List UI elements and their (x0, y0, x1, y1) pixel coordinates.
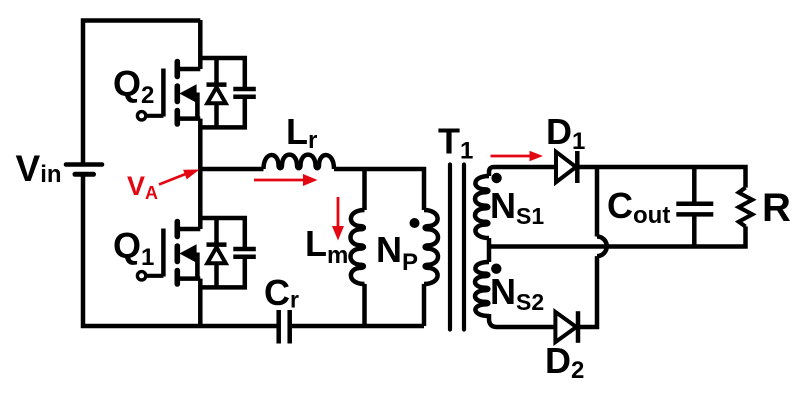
red current arrow down into Lm (337, 197, 340, 226)
wire riser from crossover down to D2 (578, 256, 597, 327)
polarity dot NP (410, 218, 420, 228)
transistor Q1 channel bars (175, 222, 181, 285)
wire center tap vertical (NS1 bottom to NS2 top) (487, 238, 492, 262)
transistor Q1 gate lead (146, 274, 163, 278)
diode D1 triangle (556, 152, 576, 182)
diode Q2 body-diode cathode bar (207, 82, 227, 87)
wire Q1 snubber top (200, 218, 245, 249)
battery Vin short plate (75, 172, 94, 177)
wire Lm branch upper (362, 169, 367, 210)
svg-text:D2: D2 (545, 340, 584, 384)
svg-text:Cout: Cout (607, 185, 670, 229)
battery Vin long plate (66, 162, 102, 167)
transistor Q1 source stub (177, 276, 200, 281)
capacitor Q2 snubber plates (233, 89, 256, 97)
transistor Q1 gate terminal circle (137, 272, 145, 280)
inductor Lm (351, 210, 365, 284)
transistor Q2 channel bars (175, 62, 181, 125)
wire main rail middle segment (Q2 source through node A to Q1 drain) (198, 119, 203, 229)
transistor Q2 drain stub (177, 67, 200, 72)
diode D2 triangle (555, 312, 576, 342)
transistor Q2 source stub (177, 116, 200, 121)
transistor Q2 gate bar (161, 69, 166, 117)
transistor Q2 gate terminal circle (137, 112, 145, 120)
diode Q2 body-diode leads (214, 58, 219, 127)
svg-text:D1: D1 (546, 111, 585, 155)
svg-text:VA: VA (127, 171, 158, 203)
diode Q1 body-diode cathode bar (207, 242, 227, 247)
wire riser from output top down to crossover (595, 167, 600, 237)
transistor Q1 body arrow (179, 244, 196, 262)
winding NS2 (475, 262, 489, 316)
wire D1 to output top (577, 167, 745, 188)
svg-text:NS1: NS1 (490, 185, 544, 229)
capacitor Cr plates (279, 310, 290, 344)
wire main rail bottom segment (Q1 source to bottom rail) (198, 279, 203, 326)
resistor R zigzag (739, 188, 753, 227)
svg-text:Vin: Vin (16, 148, 62, 189)
diode Q1 body-diode triangle (207, 247, 225, 263)
wire Q2 snubber top (200, 58, 245, 89)
red current arrow before D1 (491, 155, 531, 158)
svg-text:Cr: Cr (264, 272, 299, 313)
node A red pointer arrow (159, 173, 188, 185)
transistor Q2 gate lead (146, 114, 163, 118)
polarity dot NS2 (491, 264, 501, 274)
wire main rail top segment (top rail to Q2 drain) (198, 20, 203, 69)
svg-text:R: R (762, 186, 791, 230)
svg-text:Q2: Q2 (113, 63, 154, 109)
wire Lm branch lower (362, 284, 367, 326)
wire top rail and left rail upper (83, 21, 200, 165)
svg-text:Q1: Q1 (113, 225, 154, 271)
capacitor Cout plates (676, 204, 713, 215)
transistor Q1 body stub (195, 253, 200, 280)
transformer T1 core lines (450, 165, 464, 330)
wire NS2 bottom to D2 (489, 314, 555, 327)
svg-text:NS2: NS2 (490, 271, 544, 315)
svg-text:T1: T1 (438, 121, 473, 165)
transistor Q1 gate bar (161, 229, 166, 277)
diode D2 cathode bar (576, 311, 581, 343)
wire Q1 snubber bottom (200, 257, 245, 288)
wire node A to Lr (200, 167, 263, 172)
capacitor Q1 snubber plates (233, 249, 256, 257)
red current arrow under Lr (254, 179, 305, 182)
diode Q2 body-diode triangle (207, 87, 225, 103)
inductor Lr (264, 155, 335, 169)
wire crossover hop (597, 237, 607, 257)
svg-text:Lr: Lr (286, 111, 317, 154)
wire Lr to transformer primary top (334, 169, 424, 210)
wire secondary top (NS1 to D1) (489, 167, 556, 176)
wire NP bottom lead (422, 284, 427, 326)
diode Q1 body-diode leads (214, 218, 219, 287)
transistor Q2 body arrow (179, 84, 196, 102)
diode D1 cathode bar (575, 151, 580, 183)
winding NS1 (475, 176, 489, 238)
transistor Q2 body stub (195, 93, 200, 120)
wire left rail lower and bottom rail left of Cr (83, 174, 277, 326)
capacitor Cout leads (692, 167, 697, 247)
wire Q2 snubber bottom (200, 97, 245, 128)
svg-text:NP: NP (376, 229, 418, 276)
winding NP (424, 210, 438, 284)
wire bottom rail right of Cr (292, 324, 424, 329)
wire output return (center tap to load) (489, 226, 746, 246)
transistor Q1 drain stub (177, 227, 200, 232)
polarity dot NS1 (491, 173, 501, 183)
